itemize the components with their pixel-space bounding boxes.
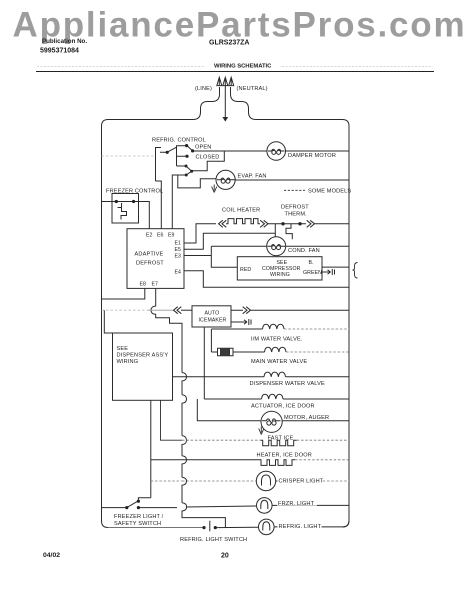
svg-text:I/M WATER VALVE.: I/M WATER VALVE. <box>251 337 303 343</box>
svg-text:E8: E8 <box>140 282 147 288</box>
label FRZR. LIGHT <box>277 499 317 507</box>
outer border top-right and right <box>256 120 349 528</box>
damper motor M1 <box>267 142 286 161</box>
wire lower pole to evap fan <box>192 151 225 171</box>
wire E5 to row 233 <box>184 233 275 249</box>
svg-text:MOTOR, AUGER: MOTOR, AUGER <box>284 415 329 421</box>
chevron in coil heater row <box>219 220 227 227</box>
svg-text:E2: E2 <box>146 233 153 239</box>
junction dot common right <box>191 149 194 152</box>
freezer control contact dots <box>115 200 118 203</box>
heater ice door resistor R3 <box>259 460 295 466</box>
neutral prong arrow <box>229 77 234 86</box>
rail hop over heater row <box>182 456 187 477</box>
wire crisper to right border <box>276 480 284 482</box>
freezer safety switch row <box>102 507 126 509</box>
actuator ice door solenoid L4 <box>262 394 284 399</box>
label REFRIG. LIGHT <box>278 522 322 530</box>
wire E7 with hop over icemaker row <box>151 288 182 372</box>
refrig control contact bus <box>177 145 187 166</box>
wire B lead to right border <box>322 266 349 268</box>
wire im valve feed <box>210 329 212 352</box>
power cord left hump <box>193 87 220 120</box>
dispenser box drop v1 <box>150 400 152 497</box>
rail hop over crisper row <box>182 477 187 503</box>
junction dot pole3 <box>185 174 188 177</box>
svg-text:THERM.: THERM. <box>285 212 308 218</box>
svg-text:COND. FAN: COND. FAN <box>288 248 320 254</box>
refrig control common bracket <box>156 148 167 158</box>
svg-text:DAMPER MOTOR: DAMPER MOTOR <box>288 153 336 159</box>
evap fan ground arrow <box>212 185 217 193</box>
junction dot pole2 right <box>190 170 193 173</box>
auger motor M4 <box>261 411 282 432</box>
svg-text:E5: E5 <box>175 247 182 253</box>
refrig light lamp <box>259 519 275 535</box>
svg-text:COIL HEATER: COIL HEATER <box>222 208 260 214</box>
compressor wiring box <box>237 257 322 280</box>
actuator feed drop <box>204 398 261 400</box>
svg-text:CRISPER LIGHT: CRISPER LIGHT <box>279 478 324 484</box>
label CRISPER LIGHT <box>278 476 324 484</box>
wire dispenser assy drop <box>104 310 112 333</box>
frzr light lamp <box>257 498 273 514</box>
compressor green lead with disconnect arrow <box>322 269 335 275</box>
chevron after defrost thermostat <box>307 220 315 227</box>
svg-text:E4: E4 <box>175 270 182 276</box>
line prong arrow <box>217 77 222 86</box>
freezer safety switch up contact <box>138 498 150 502</box>
svg-text:FREEZER LIGHT /: FREEZER LIGHT / <box>114 514 164 520</box>
fast ice row left <box>182 439 261 441</box>
dispenser assembly box <box>113 333 173 400</box>
crisper light row left <box>151 480 256 482</box>
im water valve solenoid L1 <box>263 324 285 329</box>
wire actuator to right border <box>283 398 349 400</box>
svg-text:E7: E7 <box>152 282 159 288</box>
chevron icemaker output <box>243 307 251 314</box>
svg-text:04/02: 04/02 <box>43 552 60 559</box>
auger motor ground arrow <box>259 427 264 435</box>
wire switch to refrig lamp <box>216 526 259 528</box>
svg-text:ACTUATOR, ICE DOOR: ACTUATOR, ICE DOOR <box>251 403 315 409</box>
wire fuse to main valve <box>233 351 265 353</box>
wire bus drop to E6 <box>156 158 162 229</box>
wire cond fan left leg <box>211 246 266 267</box>
heater ice door row left <box>151 459 259 461</box>
wire E9 drop from switch <box>172 175 186 229</box>
wire cond fan row to right border <box>286 245 349 247</box>
chevron after coil heater <box>260 220 268 227</box>
svg-text:E6: E6 <box>157 233 164 239</box>
wire evap fan left tail <box>178 175 216 188</box>
wire chevron to icemaker box <box>181 309 192 311</box>
svg-text:Publication No.: Publication No. <box>42 38 87 45</box>
svg-text:AUTO: AUTO <box>205 311 220 317</box>
freezer control <box>102 194 150 229</box>
evap fan motor M2 <box>216 170 235 189</box>
wire refrig lamp to right border <box>274 521 349 527</box>
wire icemaker bottom drop <box>203 327 205 399</box>
svg-text:DISPENSER ASS'Y: DISPENSER ASS'Y <box>117 352 169 358</box>
svg-text:5995371084: 5995371084 <box>40 48 79 55</box>
svg-text:(NEUTRAL): (NEUTRAL) <box>237 86 268 92</box>
header solid rule <box>36 71 434 73</box>
svg-text:FRZR. LIGHT: FRZR. LIGHT <box>278 501 315 507</box>
power cord right hump <box>231 87 257 120</box>
svg-text:WIRING SCHEMATIC: WIRING SCHEMATIC <box>214 63 272 69</box>
wire defrost row to right border <box>314 223 349 225</box>
svg-text:B.: B. <box>309 260 314 266</box>
wire E3 to red junction <box>184 255 211 257</box>
dispenser box drop v2 <box>161 400 183 440</box>
wire icemaker output to right border <box>231 309 349 311</box>
wire damper row from common <box>193 150 267 152</box>
svg-text:GREEN: GREEN <box>303 270 322 276</box>
svg-text:DISPENSER WATER VALVE: DISPENSER WATER VALVE <box>250 381 325 387</box>
wire fast ice to right border <box>297 439 349 441</box>
label SEE COMPRESSOR WIRING <box>262 260 301 278</box>
some models legend <box>284 189 351 195</box>
main water valve solenoid L2 <box>265 347 287 352</box>
svg-text:WIRING: WIRING <box>270 272 290 278</box>
svg-text:DEFROST: DEFROST <box>281 205 309 211</box>
frzr light row <box>138 506 256 508</box>
rail hop over fast ice row <box>182 436 187 456</box>
title WIRING SCHEMATIC <box>205 58 280 69</box>
svg-text:DEFROST: DEFROST <box>136 261 164 267</box>
svg-text:ADAPTIVE: ADAPTIVE <box>135 252 164 258</box>
junction dot refrig switch right <box>214 526 217 529</box>
svg-text:(LINE): (LINE) <box>195 86 212 92</box>
watermark AppliancePartsPros.com <box>13 6 467 45</box>
wire damper row to right border <box>286 150 350 152</box>
wire auger row to right border <box>282 420 349 422</box>
svg-text:REFRIG. LIGHT SWITCH: REFRIG. LIGHT SWITCH <box>180 537 247 543</box>
chevron icemaker feed <box>174 307 182 314</box>
junction dot refrig common <box>166 151 169 154</box>
header model GLRS237ZA <box>209 40 249 47</box>
junction dot safety switch lower <box>137 506 140 509</box>
condenser fan motor M3 <box>267 237 286 256</box>
refrig control lower blade <box>186 166 192 175</box>
wire defrost row <box>268 223 306 225</box>
wire E4 to lower rung <box>184 271 349 288</box>
svg-text:OPEN: OPEN <box>195 144 211 150</box>
wire E1 to coil heater row <box>184 224 216 243</box>
refrig control blade common-to-bus <box>167 147 177 152</box>
junction dot defrost therm right <box>298 222 301 225</box>
svg-text:CLOSED: CLOSED <box>196 155 220 161</box>
wire E8 to left border <box>102 288 145 299</box>
svg-text:ICEMAKER: ICEMAKER <box>199 318 227 324</box>
svg-text:MAIN WATER VALVE: MAIN WATER VALVE <box>251 359 307 365</box>
wire im valve to right border <box>284 328 349 330</box>
svg-text:E9: E9 <box>168 233 175 239</box>
defrost thermostat bimetal <box>286 224 292 239</box>
rail hop over frzr light row <box>182 503 225 528</box>
fast ice resistor R2 <box>261 440 297 446</box>
rail hop over actuator row <box>182 395 187 436</box>
svg-text:SEE: SEE <box>117 346 129 352</box>
svg-text:FAST ICE: FAST ICE <box>268 435 294 441</box>
svg-text:EVAP. FAN: EVAP. FAN <box>238 174 267 180</box>
svg-text:E1: E1 <box>175 241 182 247</box>
fuse F1 <box>211 348 233 355</box>
coil heater resistor R1 <box>226 219 260 224</box>
header publication number <box>40 38 87 55</box>
junction dot refrig switch left <box>202 526 205 529</box>
im water valve row <box>211 328 262 330</box>
junction dot safety switch left <box>125 506 128 509</box>
auto icemaker box <box>192 306 231 327</box>
junction dot safety switch upper <box>137 500 140 503</box>
freezer safety switch blade <box>127 501 138 507</box>
wire heater to right border <box>295 459 349 461</box>
header faint rule <box>37 66 433 68</box>
wire evap fan row to right border <box>235 179 350 181</box>
svg-text:REFRIG. LIGHT: REFRIG. LIGHT <box>279 524 322 530</box>
dispenser valve row <box>173 376 350 378</box>
svg-text:SAFETY SWITCH: SAFETY SWITCH <box>114 521 161 527</box>
refrig control blade open-common <box>187 145 193 151</box>
junction dot open contact <box>185 144 188 147</box>
svg-text:20: 20 <box>221 553 229 560</box>
wire defrost therm to cond fan <box>274 224 276 237</box>
rail hop over dispenser row <box>182 373 187 395</box>
svg-text:SOME MODELS: SOME MODELS <box>308 189 351 195</box>
refrig light switch plunger <box>209 521 211 532</box>
auger motor feed drop <box>197 399 261 421</box>
svg-text:HEATER, ICE DOOR: HEATER, ICE DOOR <box>257 453 312 459</box>
dispenser water valve solenoid L3 <box>264 372 286 377</box>
junction dot defrost therm left <box>281 222 284 225</box>
adaptive defrost control board <box>127 229 184 289</box>
junction dot closed contact <box>185 155 188 158</box>
svg-text:GLRS237ZA: GLRS237ZA <box>209 40 249 47</box>
svg-text:FREEZER CONTROL: FREEZER CONTROL <box>106 189 163 195</box>
svg-text:WIRING: WIRING <box>117 359 139 365</box>
brace some-models compressor <box>353 263 358 279</box>
bottom border with refrig light switch <box>108 527 203 529</box>
icemaker aux lead with disconnect arrow <box>231 319 251 325</box>
crisper light lamp <box>256 471 275 490</box>
svg-text:REFRIG. CONTROL: REFRIG. CONTROL <box>152 138 206 144</box>
wire faint feed to refrig control <box>102 155 156 157</box>
ground prong with down arrow <box>223 77 228 117</box>
svg-text:E3: E3 <box>175 254 182 260</box>
outer border left <box>102 120 194 528</box>
icemaker feed row from left border <box>102 309 149 311</box>
svg-text:RED: RED <box>240 267 251 273</box>
wire frzr light to right border <box>272 504 349 506</box>
junction dot pole2 left <box>185 165 188 168</box>
wire main valve to right border <box>286 351 349 353</box>
